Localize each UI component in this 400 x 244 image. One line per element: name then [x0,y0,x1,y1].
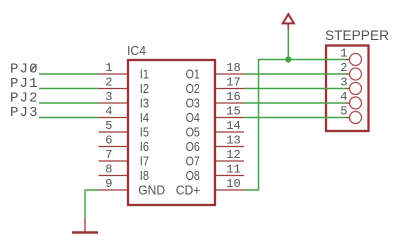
svg-text:O5: O5 [186,126,200,140]
wire gnd from pin 9 [85,190,99,218]
svg-text:18: 18 [226,61,240,75]
pin 6 [99,134,129,148]
svg-text:16: 16 [226,90,240,104]
svg-text:I3: I3 [140,97,149,111]
pin 17 [215,76,244,90]
pin 4 [99,105,129,119]
svg-text:11: 11 [226,163,240,177]
wire net PJ3 [39,117,99,119]
slash of zero in PJ0 [31,64,37,71]
pin 5 [99,119,129,133]
wire net CD+ from pin10 up to stepper pin 1 [244,60,347,191]
svg-text:I4: I4 [140,111,149,125]
svg-text:2: 2 [105,76,112,90]
pin 9 [99,177,129,191]
svg-text:8: 8 [105,163,112,177]
svg-text:6: 6 [105,134,112,148]
stepper pin 1 [340,47,361,66]
power symbol triangle [283,14,294,23]
svg-text:1: 1 [105,61,112,75]
pin 15 [215,105,244,119]
svg-text:PJ3: PJ3 [10,105,39,121]
wire net PJ1 [39,88,99,90]
svg-text:CD+: CD+ [176,184,201,198]
svg-text:I7: I7 [140,155,149,169]
svg-text:14: 14 [226,119,240,133]
wire net PJ2 [39,102,99,104]
svg-text:IC4: IC4 [127,44,146,58]
pin 8 [99,163,129,177]
svg-text:5: 5 [340,105,347,119]
svg-text:I5: I5 [140,126,149,140]
svg-text:4: 4 [105,105,112,119]
svg-text:I6: I6 [140,140,149,154]
ground symbol bar [72,231,98,234]
svg-text:12: 12 [226,148,240,162]
svg-text:4: 4 [340,90,347,104]
svg-text:I2: I2 [140,82,149,96]
pin 3 [99,90,129,104]
svg-text:O7: O7 [186,155,200,169]
svg-text:STEPPER: STEPPER [325,27,389,43]
svg-text:17: 17 [226,76,240,90]
svg-text:I8: I8 [140,169,149,183]
svg-text:15: 15 [226,105,240,119]
pin 16 [215,90,244,104]
svg-text:10: 10 [226,177,240,191]
svg-text:3: 3 [340,76,347,90]
pin 12 [215,148,244,162]
pin 13 [215,134,244,148]
svg-text:I1: I1 [140,68,149,82]
svg-text:O1: O1 [186,68,200,82]
svg-text:5: 5 [105,119,112,133]
svg-text:GND: GND [138,184,165,198]
pin 2 [99,76,129,90]
svg-text:1: 1 [340,47,347,61]
svg-text:7: 7 [105,148,112,162]
wire pin16 to stepper 4 [244,102,347,104]
pin 11 [215,163,244,177]
svg-text:9: 9 [105,177,112,191]
pin 14 [215,119,244,133]
stepper pin 3 [340,76,361,95]
pin 1 [99,61,129,75]
svg-text:O6: O6 [186,140,200,154]
connector STEPPER outline [326,46,369,132]
svg-text:O2: O2 [186,82,200,96]
wire net PJ0 [39,73,99,75]
pin 7 [99,148,129,162]
svg-text:2: 2 [340,61,347,75]
stepper pin 5 [340,105,361,124]
wire power symbol drop [287,29,289,60]
svg-text:3: 3 [105,90,112,104]
svg-text:O8: O8 [186,169,200,183]
svg-text:O4: O4 [186,111,200,125]
pin 18 [215,61,244,75]
svg-text:O3: O3 [186,97,200,111]
wire pin18 to stepper 2 [244,73,347,75]
svg-text:13: 13 [226,134,240,148]
ground symbol stem [84,218,86,232]
pin 10 [215,177,244,191]
stepper pin 2 [340,61,361,80]
ic IC4 outline [128,60,215,205]
power symbol stem [287,24,289,30]
wire pin17 to stepper 3 [244,88,347,90]
stepper pin 4 [340,90,361,109]
junction [285,56,291,62]
wire pin15 to stepper 5 [244,117,347,119]
